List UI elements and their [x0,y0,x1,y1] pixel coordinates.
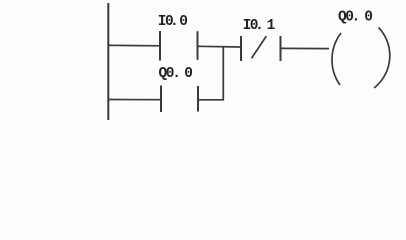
contact Q0.0 right bar [197,86,199,112]
left power rail [107,3,109,120]
wire I0.0 to I0.1 through node B [198,45,242,48]
slash of NC contact I0.1 [252,36,267,58]
svg-text:Q0.0: Q0.0 [338,10,372,26]
coil Q0.0 right parenthesis [374,28,390,89]
wire rung1 rail to I0.0 [108,44,160,47]
wire Q0.0 contact to branch corner [198,99,223,101]
svg-text:I0.0: I0.0 [158,14,187,30]
wire rung2 rail to Q0.0 contact [108,99,161,101]
svg-text:Q0.0: Q0.0 [159,66,193,82]
svg-text:I0.1: I0.1 [243,18,276,34]
contact I0.1 left bar [240,36,242,61]
contact Q0.0 left bar [160,86,162,113]
contact I0.1 right bar [280,36,282,61]
wire I0.1 to coil Q0.0 [281,47,330,49]
coil Q0.0 left parenthesis [332,33,341,85]
branch vertical wire to node B [222,46,224,101]
contact I0.0 left bar [159,31,161,61]
contact I0.0 right bar [197,31,199,60]
